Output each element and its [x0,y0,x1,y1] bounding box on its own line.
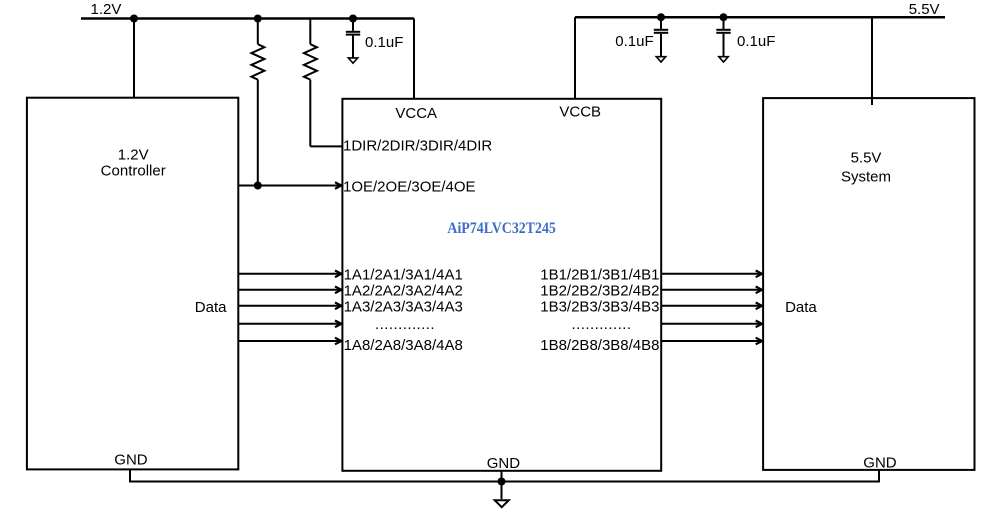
svg-text:.............: ............. [375,316,435,333]
capacitor C2 0.1uF [615,17,668,57]
svg-text:Data: Data [195,299,227,316]
ground bus wire [130,470,879,482]
svg-text:1B8/2B8/3B8/4B8: 1B8/2B8/3B8/4B8 [540,337,659,354]
junction on 1.2V rail at C1 [349,15,357,23]
svg-text:Data: Data [785,299,817,316]
svg-text:1.2V: 1.2V [118,146,149,163]
data wire A1 [238,271,341,278]
wire DIR line (R2 to DIR pin) [310,145,342,147]
junction on 5.5V rail at C3 [720,13,728,21]
resistor R2 (pull-up to DIR line) [304,19,317,147]
wire 5.5V rail to system block [871,17,873,105]
svg-text:System: System [841,169,891,186]
ground arrow of C1 [348,58,357,63]
junction on OE line at R1 [254,182,262,190]
data wire B8 [661,338,762,345]
wire 1.2V rail to VCCA pin [413,19,415,99]
data wire A2 [238,287,341,294]
svg-text:5.5V: 5.5V [909,1,940,18]
junction on 5.5V rail at C2 [657,13,665,21]
svg-text:.............: ............. [571,316,631,333]
junction on 1.2V rail at controller drop [130,15,138,23]
junction on ground bus [498,478,506,486]
ground arrow of C3 [719,57,728,62]
block 1.2V Controller [27,98,238,470]
svg-text:0.1uF: 0.1uF [365,34,403,51]
capacitor C1 0.1uF [346,19,404,59]
svg-text:Controller: Controller [101,162,166,179]
net 1.2V rail [81,1,414,18]
svg-text:5.5V: 5.5V [851,150,882,167]
capacitor C3 0.1uF [716,17,775,57]
data wire B1 [661,271,762,278]
svg-text:1A1/2A1/3A1/4A1: 1A1/2A1/3A1/4A1 [344,266,463,283]
wire VCCB pin to 5.5V rail [574,17,576,98]
data wire B2 [661,287,762,294]
svg-text:1A8/2A8/3A8/4A8: 1A8/2A8/3A8/4A8 [344,337,463,354]
svg-text:0.1uF: 0.1uF [615,33,653,50]
ground symbol [495,500,509,507]
svg-text:1B1/2B1/3B1/4B1: 1B1/2B1/3B1/4B1 [540,266,659,283]
svg-text:1A3/2A3/3A3/4A3: 1A3/2A3/3A3/4A3 [344,298,463,315]
svg-text:1B3/2B3/3B3/4B3: 1B3/2B3/3B3/4B3 [540,298,659,315]
data wire A3 [238,303,341,310]
resistor R1 (pull-up to OE line) [251,19,264,186]
data wire B4 (ellipsis row) [661,321,762,328]
svg-text:VCCA: VCCA [395,105,437,122]
net 5.5V rail [575,1,945,18]
svg-text:GND: GND [863,455,897,472]
data wire B3 [661,303,762,310]
data wire A4 (ellipsis row) [238,321,341,328]
wire 1.2V rail to controller VCC [133,19,135,98]
svg-text:1OE/2OE/3OE/4OE: 1OE/2OE/3OE/4OE [343,178,476,195]
svg-text:0.1uF: 0.1uF [737,33,775,50]
ground arrow of C2 [656,57,665,62]
block 5.5V System [763,98,974,470]
svg-text:1B2/2B2/3B2/4B2: 1B2/2B2/3B2/4B2 [540,282,659,299]
svg-text:VCCB: VCCB [559,104,601,121]
svg-text:AiP74LVC32T245: AiP74LVC32T245 [447,220,556,237]
data wire A8 [238,338,341,345]
svg-text:GND: GND [487,455,521,472]
IC U1 AiP74LVC32T245 body [342,99,661,471]
svg-text:1DIR/2DIR/3DIR/4DIR: 1DIR/2DIR/3DIR/4DIR [343,138,492,155]
wire OE line (controller to OE pin) [238,182,341,189]
svg-text:GND: GND [114,452,148,469]
svg-text:1.2V: 1.2V [91,1,122,18]
svg-text:1A2/2A2/3A2/4A2: 1A2/2A2/3A2/4A2 [344,282,463,299]
junction on 1.2V rail at R1 [254,15,262,23]
wire IC GND pin to bus [501,471,503,499]
